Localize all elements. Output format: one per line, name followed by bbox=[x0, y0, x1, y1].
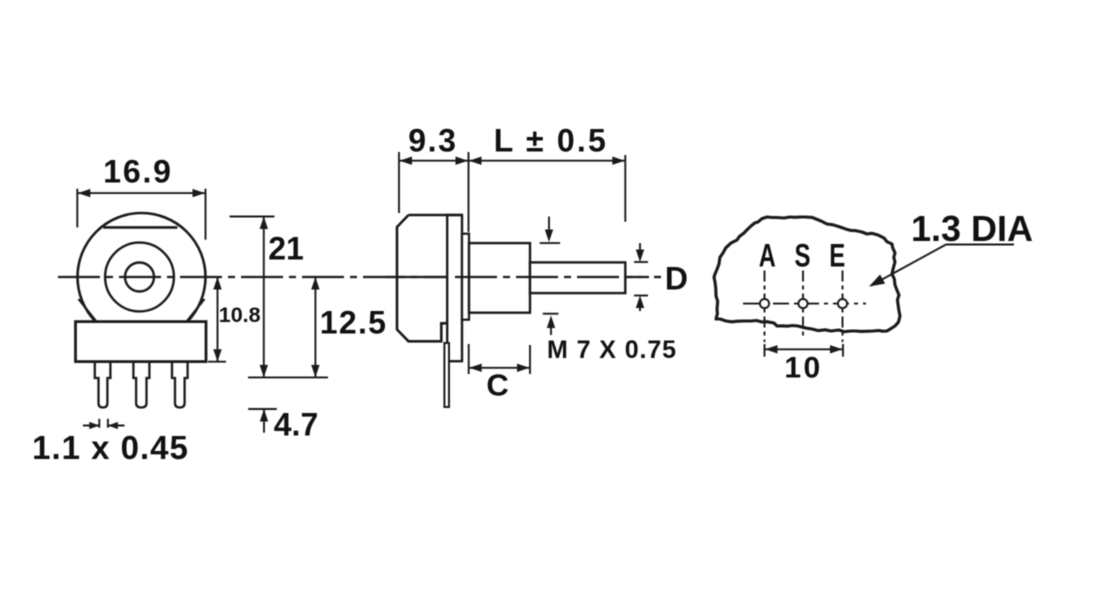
svg-text:A: A bbox=[759, 238, 776, 274]
svg-text:M 7 X 0.75: M 7 X 0.75 bbox=[547, 336, 677, 364]
svg-text:1.1 x 0.45: 1.1 x 0.45 bbox=[32, 429, 189, 466]
svg-text:S: S bbox=[795, 238, 811, 274]
svg-text:C: C bbox=[486, 367, 508, 402]
svg-text:12.5: 12.5 bbox=[320, 305, 387, 341]
svg-text:16.9: 16.9 bbox=[103, 154, 172, 190]
svg-text:10: 10 bbox=[784, 352, 822, 385]
svg-text:1.3 DIA: 1.3 DIA bbox=[911, 208, 1033, 249]
svg-text:L ± 0.5: L ± 0.5 bbox=[494, 123, 608, 159]
svg-text:E: E bbox=[829, 238, 845, 274]
svg-text:4.7: 4.7 bbox=[274, 407, 318, 443]
svg-text:9.3: 9.3 bbox=[408, 123, 457, 159]
svg-text:21: 21 bbox=[268, 231, 304, 267]
svg-text:10.8: 10.8 bbox=[219, 303, 261, 327]
svg-text:D: D bbox=[665, 260, 688, 296]
